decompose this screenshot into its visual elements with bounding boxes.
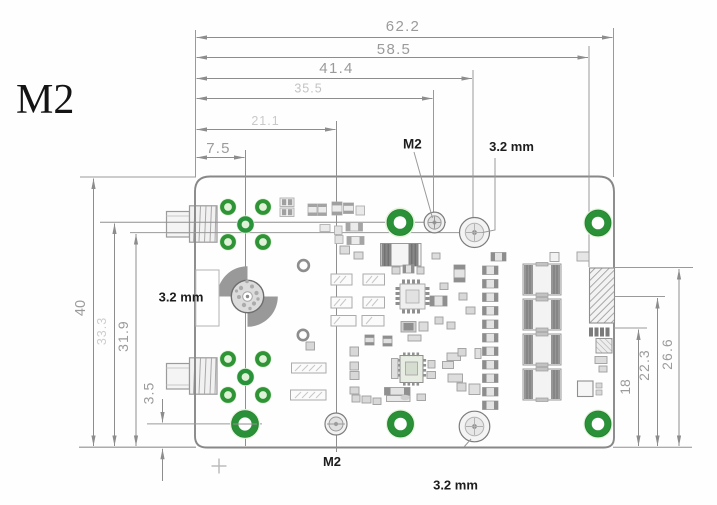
hole: 3.2 mm hole top (474.5,232.5) [460, 218, 490, 248]
hole: RF pad cluster top (5 plated holes around SMA pin) [219, 198, 271, 250]
svg-text:40: 40 [73, 300, 89, 316]
label M2 top with leader [403, 137, 433, 219]
right extension line 18 (y=328) [614, 327, 647, 329]
svg-text:26.6: 26.6 [659, 338, 675, 370]
dimension 41.4 [197, 60, 473, 79]
component group: parts below centerline A [320, 223, 364, 245]
hole: dark keep-out hole left (3.2 mm) with quadrant wedges [217, 266, 278, 327]
svg-text:M2: M2 [403, 137, 422, 152]
node: vertical centerline x=336.5 (21.1 ext) [336, 121, 338, 452]
board outline [195, 177, 614, 448]
component group: top row SMD parts near RF cluster [280, 198, 365, 217]
node: vertical extension x=589 (58.5 ext) [588, 46, 590, 267]
svg-text:62.2: 62.2 [386, 18, 420, 35]
svg-text:21.1: 21.1 [251, 114, 279, 128]
node: horizontal centerline B (y=232.5, 31.9 ext) [130, 232, 474, 234]
svg-text:18: 18 [617, 379, 633, 395]
svg-text:31.9: 31.9 [115, 320, 131, 352]
label 3.2 mm top with leader [483, 139, 534, 233]
wire: board bottom edge extension left [79, 446, 196, 448]
component group: capacitor column right-middle [483, 253, 507, 410]
component: main IC U1 with peripheral pads [396, 280, 430, 314]
component: white square pad bottom-right [578, 381, 603, 397]
hole: mounting hole green top-right (598,223) [583, 208, 612, 237]
node: vertical centerline x=245.5 (7.5 ext) [245, 150, 247, 446]
dimension 62.2 [197, 18, 613, 38]
svg-text:M2: M2 [323, 454, 341, 469]
node: vertical extension x=613.5 (62.2 ext) [613, 28, 615, 177]
node: horizontal centerline A (y=222, 33.3 ext) [100, 221, 446, 223]
dimension 35.5 [197, 82, 433, 99]
hole: mounting hole green bottom-left (245,424) [230, 409, 260, 439]
component group: inductor column L1-L4 [523, 263, 561, 402]
component group: white silkscreen footprints grid [331, 274, 385, 326]
dimension 18 (right) [617, 330, 639, 447]
svg-text:35.5: 35.5 [294, 82, 322, 96]
component: via V2 [298, 330, 308, 340]
node: horizontal centerline 3.5 ext (y=424) [147, 423, 262, 425]
right extension line 26.6 (y=267.5) [614, 267, 693, 269]
svg-text:3.2 mm: 3.2 mm [489, 139, 534, 154]
dimension 22.3 (right) [636, 298, 658, 446]
svg-text:22.3: 22.3 [636, 349, 652, 381]
node: vertical extension x=473 (41.4 ext) [472, 70, 474, 221]
node: vertical extension x=433.5 (35.5 ext) [433, 90, 435, 233]
hole: mounting hole green bottom-right (598,424) [583, 409, 612, 438]
component group: small parts right edge [550, 252, 607, 372]
dimension 21.1 [197, 114, 336, 130]
connector: small hatched pad right edge [596, 339, 612, 354]
component: shielded package U3 (dark side bars) [381, 244, 422, 267]
node: dimension baseline x=195.5 [195, 30, 197, 177]
svg-text:58.5: 58.5 [377, 41, 411, 58]
component: QFN chip U2 bottom cluster [397, 353, 426, 386]
svg-text:M2: M2 [16, 77, 74, 123]
svg-text:41.4: 41.4 [319, 60, 353, 77]
dimension 3.5 (left, arrows outside) [141, 382, 163, 481]
hole: mounting hole green top-center (400,222.5) [385, 208, 415, 238]
component: pin row under edge connector [589, 328, 610, 337]
label 3.2 mm left (callout box) [159, 270, 219, 326]
connector J1 SMA top body [167, 212, 190, 238]
connector: hatched edge connector right [590, 268, 615, 323]
wire: board bottom edge extension right [613, 446, 692, 448]
component group: white silkscreen connectors lower-left [291, 363, 327, 400]
connector J2 SMA bottom body [167, 364, 190, 390]
component group: small parts around U1 [340, 246, 475, 332]
svg-text:3.2 mm: 3.2 mm [159, 290, 204, 305]
svg-text:33.3: 33.3 [95, 317, 109, 345]
dimension 7.5 [197, 140, 245, 158]
component: via V1 [298, 260, 309, 271]
svg-text:7.5: 7.5 [206, 140, 230, 157]
svg-text:3.5: 3.5 [141, 382, 157, 405]
component group: bottom cluster small parts [306, 335, 481, 405]
dimension 26.6 (right) [659, 269, 679, 446]
label 3.2 mm bottom with leader [433, 439, 478, 493]
dimension 40 (left) [73, 179, 94, 447]
connector J1 SMA top threads [190, 206, 218, 242]
dimension 31.9 (left) [115, 234, 136, 446]
dimension 33.3 (left, faint) [95, 224, 115, 447]
connector J2 SMA bottom threads [190, 358, 218, 394]
hole: RF pad cluster bottom (5 plated holes around SMA pin) [219, 350, 271, 403]
right extension line 22.3 (y=296.5) [614, 296, 665, 298]
hole: M2 screw hole top (434.5,222.5) [424, 212, 445, 233]
svg-text:3.2 mm: 3.2 mm [433, 478, 478, 493]
wire: board top edge extension left [80, 176, 196, 178]
hole: 3.2 mm hole bottom (474.5,426.5) [459, 411, 490, 442]
hole: M2 screw hole bottom (336,424) [325, 413, 347, 435]
dimension 58.5 [197, 41, 589, 58]
hole: mounting hole green bottom-center (400.5,424) [386, 409, 415, 438]
node: origin cross mark below board [212, 459, 227, 474]
